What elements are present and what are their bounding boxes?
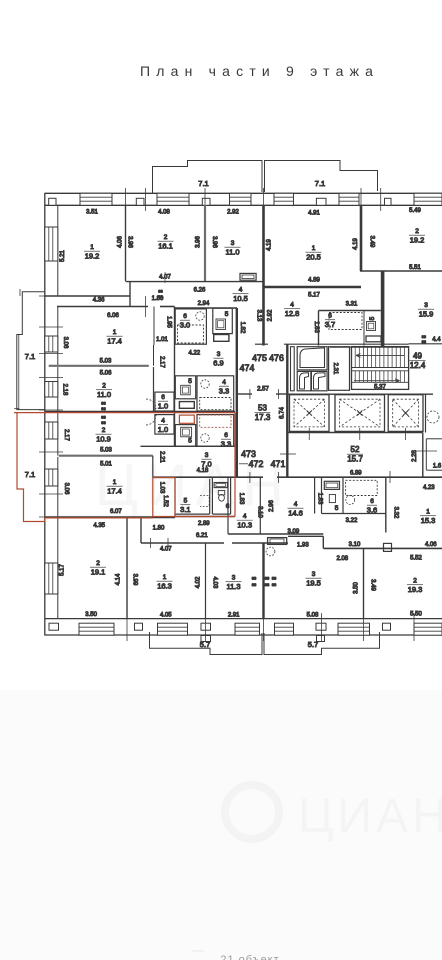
misc ticks <box>94 281 96 283</box>
ticks south wall <box>126 613 128 641</box>
svg-text:6: 6 <box>370 498 374 505</box>
interior walls row1 <box>125 205 127 281</box>
svg-text:4: 4 <box>161 418 165 425</box>
svg-text:17.4: 17.4 <box>107 487 122 496</box>
svg-text:3.96: 3.96 <box>196 236 202 248</box>
svg-text:2.08: 2.08 <box>336 556 348 562</box>
svg-text:16.1: 16.1 <box>158 242 173 251</box>
rooms mid-bottom <box>227 477 229 534</box>
svg-text:3.3: 3.3 <box>219 387 229 396</box>
svg-text:4.18: 4.18 <box>197 468 209 474</box>
svg-text:2.92: 2.92 <box>268 309 274 321</box>
svg-text:1.83: 1.83 <box>238 493 244 505</box>
svg-text:4.4: 4.4 <box>432 337 441 343</box>
svg-text:3: 3 <box>424 302 428 309</box>
svg-text:1: 1 <box>90 244 94 251</box>
svg-text:5.08: 5.08 <box>307 612 319 618</box>
svg-text:12.4: 12.4 <box>410 361 426 370</box>
svg-text:1: 1 <box>113 329 117 336</box>
svg-text:88: 88 <box>158 289 163 294</box>
svg-text:3.0: 3.0 <box>180 321 190 330</box>
svg-text:88: 88 <box>272 576 277 581</box>
svg-text:88: 88 <box>101 420 106 425</box>
svg-text:11.3: 11.3 <box>226 582 240 591</box>
svg-text:4.22: 4.22 <box>188 351 200 357</box>
svg-text:2.18: 2.18 <box>62 384 68 396</box>
svg-text:1.80: 1.80 <box>153 526 165 532</box>
svg-text:5.37: 5.37 <box>374 385 386 391</box>
svg-text:6.74: 6.74 <box>279 407 285 419</box>
svg-text:49: 49 <box>413 352 422 361</box>
svg-text:4.03: 4.03 <box>211 577 217 589</box>
svg-text:11.0: 11.0 <box>225 248 239 257</box>
svg-text:1: 1 <box>426 509 430 516</box>
svg-text:3.22: 3.22 <box>346 518 358 524</box>
svg-text:6.07: 6.07 <box>110 509 122 515</box>
svg-text:6: 6 <box>328 313 332 320</box>
exterior north wall <box>45 192 442 194</box>
svg-text:7.1: 7.1 <box>315 179 325 188</box>
svg-text:6.9: 6.9 <box>213 359 223 368</box>
svg-text:2: 2 <box>413 578 417 585</box>
svg-text:2.31: 2.31 <box>332 363 338 375</box>
pilasters south wall <box>49 623 59 630</box>
svg-text:19.2: 19.2 <box>410 236 425 245</box>
svg-text:5.03: 5.03 <box>100 359 112 365</box>
svg-text:2: 2 <box>164 234 168 241</box>
svg-text:4.89: 4.89 <box>308 278 320 284</box>
stairs <box>352 347 409 390</box>
svg-text:6: 6 <box>183 313 187 320</box>
svg-text:4.19: 4.19 <box>267 239 273 251</box>
svg-text:4.06: 4.06 <box>118 236 124 248</box>
svg-text:5.50: 5.50 <box>410 612 422 618</box>
svg-text:14.6: 14.6 <box>288 509 303 518</box>
elevator lobby boxes <box>291 347 295 391</box>
svg-text:4.36: 4.36 <box>93 298 105 304</box>
windows south wall <box>79 623 114 635</box>
svg-text:3.13: 3.13 <box>256 310 262 322</box>
svg-text:19.1: 19.1 <box>91 568 106 577</box>
svg-text:1.01: 1.01 <box>156 337 168 343</box>
svg-text:3.1: 3.1 <box>180 505 190 514</box>
ticks west wall <box>39 295 63 297</box>
svg-text:4.35: 4.35 <box>93 523 105 529</box>
svg-text:476: 476 <box>269 353 284 363</box>
svg-text:3.3: 3.3 <box>221 440 231 449</box>
svg-text:3.06: 3.06 <box>63 483 69 495</box>
svg-text:88: 88 <box>252 576 257 581</box>
svg-text:88: 88 <box>101 401 106 406</box>
svg-text:88: 88 <box>158 294 163 299</box>
svg-text:4.91: 4.91 <box>308 211 320 217</box>
svg-text:7.1: 7.1 <box>25 470 35 479</box>
svg-text:3.7: 3.7 <box>325 320 335 329</box>
svg-text:10.5: 10.5 <box>233 294 248 303</box>
watermark bottom <box>225 785 442 843</box>
svg-text:3.06: 3.06 <box>62 337 68 349</box>
svg-text:1.93: 1.93 <box>297 543 309 549</box>
svg-text:10.3: 10.3 <box>237 521 252 530</box>
balcony left top (7.1) <box>17 292 45 410</box>
room 5/3.1 <box>200 496 209 507</box>
left mid walls <box>49 365 149 367</box>
svg-text:1.03: 1.03 <box>159 482 165 494</box>
svg-text:4.05: 4.05 <box>160 612 172 618</box>
svg-text:475: 475 <box>252 353 267 363</box>
svg-text:4.14: 4.14 <box>116 573 122 585</box>
svg-text:2.91: 2.91 <box>228 612 240 618</box>
svg-text:5.17: 5.17 <box>308 293 320 299</box>
svg-text:1.0: 1.0 <box>158 425 168 434</box>
svg-text:5: 5 <box>225 311 229 318</box>
svg-text:1.83: 1.83 <box>313 321 319 333</box>
svg-text:4.23: 4.23 <box>423 485 435 491</box>
svg-text:4: 4 <box>290 302 294 309</box>
svg-text:2.94: 2.94 <box>198 301 210 307</box>
svg-text:5.49: 5.49 <box>409 208 421 214</box>
svg-text:15.7: 15.7 <box>347 455 363 464</box>
svg-text:3.96: 3.96 <box>127 236 133 248</box>
svg-text:21 объект: 21 объект <box>220 954 279 960</box>
ticks north wall <box>125 188 127 211</box>
svg-text:17.3: 17.3 <box>255 413 271 422</box>
svg-text:5.17: 5.17 <box>59 564 65 576</box>
svg-text:4: 4 <box>243 513 247 520</box>
svg-text:3: 3 <box>205 452 209 459</box>
svg-text:3: 3 <box>232 575 236 582</box>
svg-text:2: 2 <box>96 560 100 567</box>
main plan group <box>14 161 442 655</box>
svg-text:6: 6 <box>224 432 228 439</box>
svg-text:5: 5 <box>184 498 188 505</box>
svg-text:1.83: 1.83 <box>316 493 322 505</box>
svg-text:1.52: 1.52 <box>162 495 168 507</box>
svg-text:1: 1 <box>163 574 167 581</box>
svg-text:88: 88 <box>101 406 106 411</box>
svg-text:88: 88 <box>422 339 427 344</box>
svg-text:11.0: 11.0 <box>97 390 111 399</box>
svg-text:5.01: 5.01 <box>100 462 112 468</box>
fixtures room 5/3.6 right block <box>324 481 339 489</box>
svg-text:15.9: 15.9 <box>419 310 434 319</box>
windows north wall <box>80 193 112 205</box>
svg-text:12.8: 12.8 <box>285 309 300 318</box>
svg-text:5.03: 5.03 <box>100 448 112 454</box>
svg-text:4: 4 <box>294 501 298 508</box>
svg-text:20.5: 20.5 <box>306 253 321 262</box>
svg-text:2: 2 <box>102 427 106 434</box>
svg-text:19.2: 19.2 <box>85 252 100 261</box>
svg-text:472: 472 <box>249 459 264 469</box>
svg-text:2: 2 <box>102 383 106 390</box>
fixtures top right 3.7/5 <box>329 313 362 330</box>
svg-text:2: 2 <box>415 228 419 235</box>
corridor walls center <box>237 393 252 395</box>
svg-text:2.28: 2.28 <box>412 450 418 462</box>
svg-text:4.19: 4.19 <box>353 238 359 250</box>
balcony parapet top-left <box>153 161 263 194</box>
svg-text:1.82: 1.82 <box>239 322 245 334</box>
svg-text:1.0: 1.0 <box>158 402 168 411</box>
svg-text:3.49: 3.49 <box>370 579 376 591</box>
svg-text:2.21: 2.21 <box>158 451 164 463</box>
faint cropped caption bottom <box>192 951 280 960</box>
svg-text:5: 5 <box>335 505 339 512</box>
svg-text:1.95: 1.95 <box>166 316 172 328</box>
watermark center <box>95 453 292 518</box>
svg-text:3.09: 3.09 <box>288 529 300 535</box>
bath cluster apt475/476 (top) <box>175 309 206 344</box>
svg-text:4.07: 4.07 <box>160 547 172 553</box>
svg-text:16.3: 16.3 <box>157 582 172 591</box>
svg-text:88: 88 <box>265 582 270 587</box>
svg-text:6.26: 6.26 <box>194 288 206 294</box>
svg-text:5.06: 5.06 <box>100 371 112 377</box>
svg-text:2.96: 2.96 <box>269 500 275 512</box>
svg-text:5: 5 <box>188 438 192 445</box>
parapet bottom <box>150 632 263 655</box>
svg-text:15.3: 15.3 <box>421 516 436 525</box>
svg-text:53: 53 <box>258 404 267 413</box>
svg-text:4.08: 4.08 <box>158 210 170 216</box>
svg-text:2.17: 2.17 <box>63 429 69 441</box>
svg-text:3.96: 3.96 <box>211 236 217 248</box>
svg-text:3.31: 3.31 <box>346 302 358 308</box>
svg-text:6.89: 6.89 <box>350 471 362 477</box>
svg-text:1: 1 <box>113 479 117 486</box>
elevators <box>290 395 330 432</box>
toilet room 6 fixtures <box>214 483 227 488</box>
svg-text:7.0: 7.0 <box>201 460 211 469</box>
svg-text:3.49: 3.49 <box>369 236 375 248</box>
svg-text:3.6: 3.6 <box>367 506 377 515</box>
tabs below south wall <box>201 636 211 642</box>
svg-text:3.32: 3.32 <box>393 507 399 519</box>
svg-text:2.57: 2.57 <box>257 387 269 393</box>
windows west wall <box>45 227 58 261</box>
svg-text:7.1: 7.1 <box>198 179 208 188</box>
svg-text:4.06: 4.06 <box>425 542 437 548</box>
svg-text:4: 4 <box>239 287 243 294</box>
svg-text:3.10: 3.10 <box>349 542 361 548</box>
svg-text:88: 88 <box>265 576 270 581</box>
svg-text:1: 1 <box>312 245 316 252</box>
svg-text:6: 6 <box>226 503 230 510</box>
red apartment outline <box>14 412 235 414</box>
svg-text:3.51: 3.51 <box>86 210 98 216</box>
svg-text:474: 474 <box>240 363 255 373</box>
svg-text:2.17: 2.17 <box>158 356 164 368</box>
pilasters north wall <box>49 198 56 205</box>
svg-text:88: 88 <box>101 415 106 420</box>
svg-text:473: 473 <box>241 449 256 459</box>
svg-text:6: 6 <box>161 394 165 401</box>
svg-text:17.4: 17.4 <box>107 337 122 346</box>
svg-text:3: 3 <box>231 240 235 247</box>
svg-text:7.1: 7.1 <box>25 352 35 361</box>
lower page tint <box>0 690 442 960</box>
svg-text:52: 52 <box>351 445 360 454</box>
bath cluster apt473 (mirror) <box>155 415 174 435</box>
svg-text:3: 3 <box>217 351 221 358</box>
svg-text:6.06: 6.06 <box>107 313 119 319</box>
svg-text:4.02: 4.02 <box>196 576 202 588</box>
door arcs central <box>146 399 156 409</box>
svg-text:471: 471 <box>271 459 286 469</box>
svg-text:ЦИАН: ЦИАН <box>298 790 442 843</box>
fixtures 19.5 top / 11.0 corner <box>268 538 287 545</box>
svg-text:2.89: 2.89 <box>198 521 210 527</box>
svg-text:5.51: 5.51 <box>409 265 421 271</box>
svg-text:2.92: 2.92 <box>227 210 239 216</box>
svg-text:3.50: 3.50 <box>85 612 97 618</box>
svg-text:19.5: 19.5 <box>306 579 321 588</box>
svg-text:5.21: 5.21 <box>60 250 66 262</box>
balcony parapet top-right <box>265 161 378 193</box>
hall 15.7 bottom wall / apartment top walls <box>153 476 263 478</box>
svg-text:3.10: 3.10 <box>257 506 263 518</box>
svg-text:5.52: 5.52 <box>410 556 422 562</box>
bath cluster apt474 <box>155 392 174 411</box>
svg-text:3.99: 3.99 <box>132 574 138 586</box>
svg-text:5: 5 <box>369 316 376 320</box>
svg-text:88: 88 <box>272 582 277 587</box>
svg-text:4: 4 <box>222 379 226 386</box>
svg-text:План части 9 этажа: План части 9 этажа <box>140 63 379 79</box>
svg-text:6.21: 6.21 <box>196 533 208 539</box>
svg-text:1.6: 1.6 <box>433 464 442 470</box>
svg-text:88: 88 <box>252 582 257 587</box>
vestibule right <box>422 433 424 478</box>
svg-text:19.3: 19.3 <box>408 585 423 594</box>
svg-text:10.9: 10.9 <box>96 435 111 444</box>
svg-text:3.50: 3.50 <box>354 582 360 594</box>
svg-text:3: 3 <box>312 571 316 578</box>
svg-text:5: 5 <box>188 378 192 385</box>
